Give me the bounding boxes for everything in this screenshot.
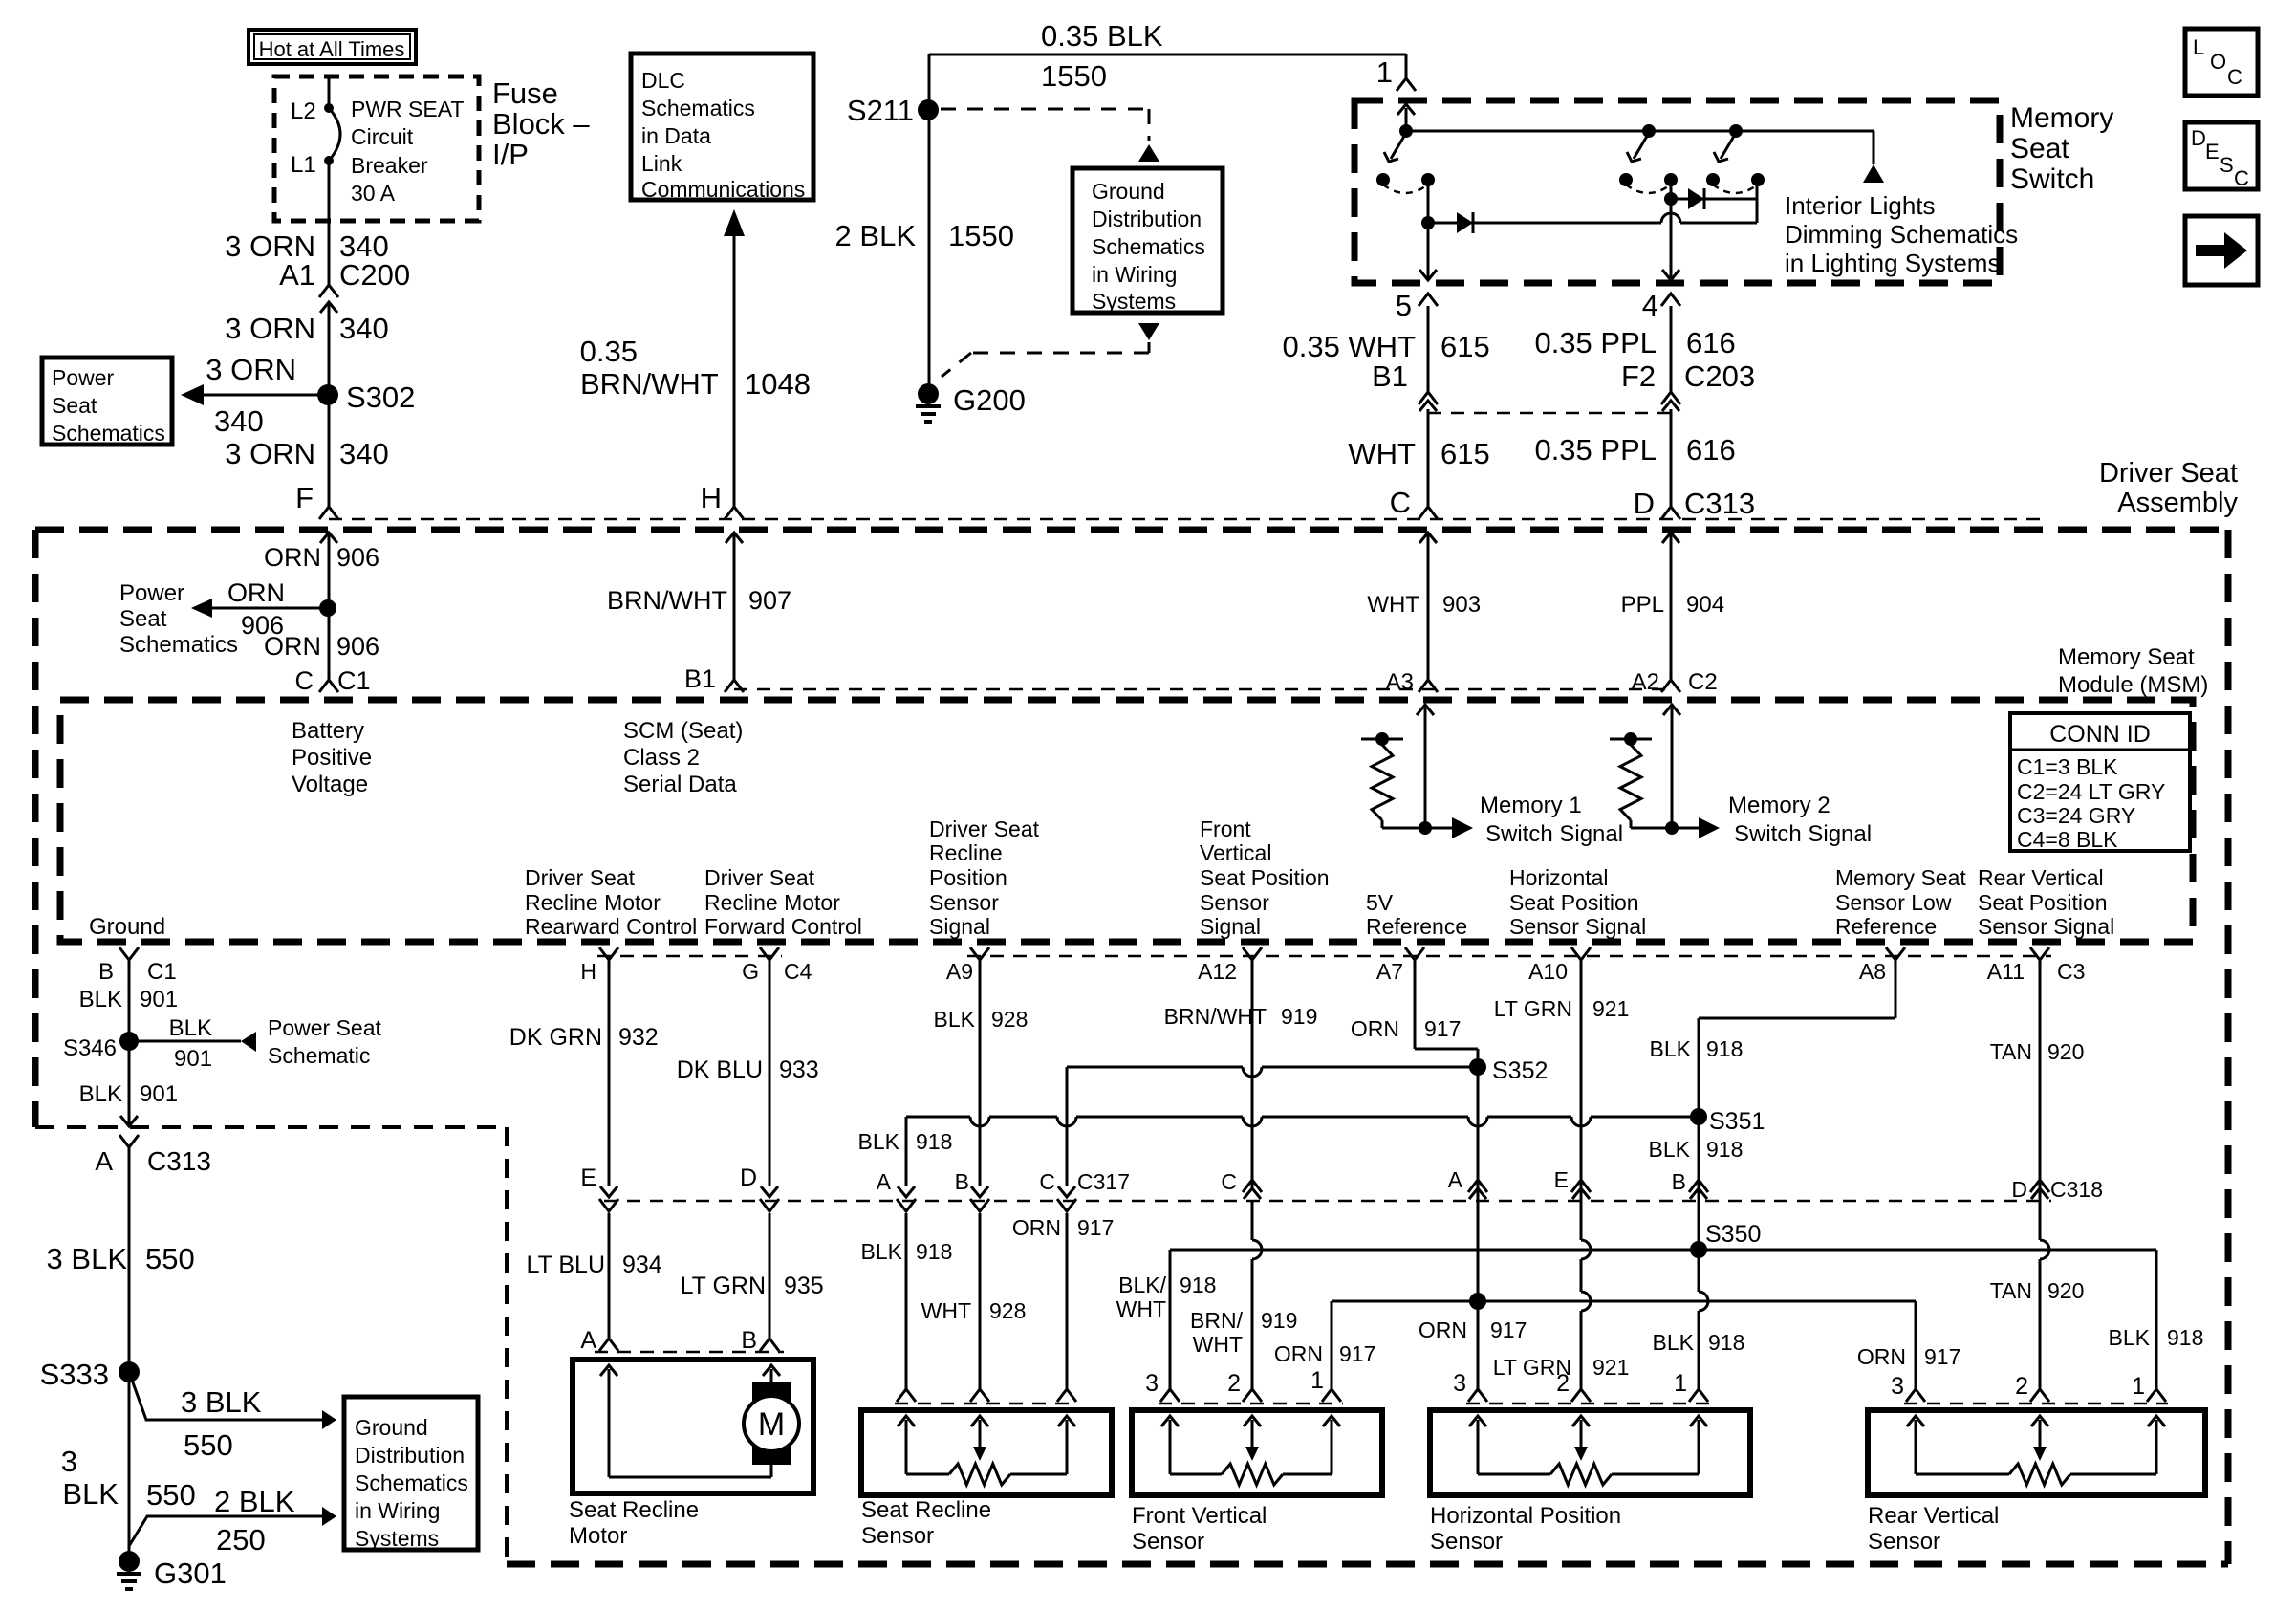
svg-text:Switch Signal: Switch Signal: [1734, 821, 1872, 847]
svg-text:Ground: Ground: [1092, 179, 1165, 204]
svg-text:Sensor: Sensor: [1200, 890, 1269, 915]
svg-text:3: 3: [1891, 1373, 1904, 1400]
svg-text:Front Vertical: Front Vertical: [1132, 1503, 1267, 1529]
svg-text:BLK: BLK: [934, 1007, 976, 1032]
svg-text:5V: 5V: [1366, 890, 1394, 915]
svg-text:Driver Seat: Driver Seat: [929, 816, 1040, 841]
svg-text:920: 920: [2047, 1039, 2084, 1064]
svg-text:917: 917: [1490, 1317, 1527, 1342]
svg-text:Positive: Positive: [292, 745, 372, 771]
svg-text:917: 917: [1077, 1215, 1114, 1240]
svg-text:Reference: Reference: [1366, 914, 1467, 939]
svg-text:G200: G200: [953, 383, 1026, 417]
svg-text:B: B: [98, 959, 114, 985]
svg-text:E: E: [2205, 140, 2220, 163]
svg-text:Sensor: Sensor: [1430, 1529, 1503, 1555]
svg-text:928: 928: [991, 1007, 1028, 1032]
svg-text:C3=24 GRY: C3=24 GRY: [2017, 803, 2135, 828]
svg-text:Position: Position: [929, 865, 1007, 890]
svg-text:928: 928: [989, 1298, 1026, 1323]
svg-text:3: 3: [1145, 1370, 1159, 1397]
svg-text:3 ORN: 3 ORN: [225, 312, 315, 345]
svg-text:ORN: ORN: [264, 632, 321, 661]
svg-text:in Data: in Data: [641, 123, 711, 148]
svg-text:921: 921: [1592, 1355, 1629, 1380]
svg-text:C3: C3: [2057, 959, 2085, 984]
svg-text:ORN: ORN: [1857, 1344, 1906, 1369]
svg-text:Schematics: Schematics: [119, 632, 238, 658]
svg-text:918: 918: [1180, 1273, 1216, 1297]
svg-text:3 BLK: 3 BLK: [47, 1242, 128, 1275]
svg-text:PPL: PPL: [1621, 592, 1664, 618]
svg-text:Power Seat: Power Seat: [268, 1015, 382, 1040]
svg-text:A: A: [877, 1169, 892, 1194]
svg-text:917: 917: [1924, 1344, 1960, 1369]
svg-text:935: 935: [784, 1273, 824, 1299]
svg-text:Seat Recline: Seat Recline: [861, 1497, 991, 1523]
svg-text:G: G: [742, 959, 759, 984]
svg-text:Schematics: Schematics: [1092, 234, 1205, 259]
svg-text:A: A: [580, 1327, 596, 1354]
svg-text:BRN/WHT: BRN/WHT: [1164, 1004, 1267, 1029]
svg-text:0.35 WHT: 0.35 WHT: [1282, 330, 1416, 363]
svg-text:BLK: BLK: [79, 1081, 122, 1107]
svg-text:B: B: [955, 1169, 969, 1194]
svg-text:1048: 1048: [745, 367, 811, 401]
svg-text:CONN ID: CONN ID: [2049, 721, 2151, 748]
svg-text:901: 901: [174, 1046, 212, 1072]
svg-text:S302: S302: [346, 381, 415, 414]
svg-text:Link: Link: [641, 151, 682, 176]
svg-text:DK GRN: DK GRN: [509, 1024, 602, 1051]
svg-text:C4: C4: [784, 959, 812, 984]
svg-text:I/P: I/P: [492, 138, 529, 171]
svg-text:906: 906: [336, 543, 379, 572]
svg-text:WHT: WHT: [1116, 1296, 1166, 1321]
svg-text:ORN: ORN: [227, 578, 285, 607]
svg-text:A3: A3: [1386, 669, 1414, 695]
svg-text:S333: S333: [40, 1358, 109, 1391]
svg-text:B1: B1: [684, 664, 716, 693]
svg-text:550: 550: [145, 1242, 195, 1275]
svg-text:C4=8 BLK: C4=8 BLK: [2017, 827, 2118, 852]
svg-text:932: 932: [618, 1024, 659, 1051]
svg-text:1: 1: [2132, 1373, 2145, 1400]
svg-text:340: 340: [339, 437, 389, 470]
svg-text:3: 3: [61, 1445, 77, 1478]
svg-text:Distribution: Distribution: [355, 1443, 465, 1468]
svg-text:L: L: [2193, 35, 2204, 59]
svg-text:Vertical: Vertical: [1200, 840, 1271, 865]
svg-text:WHT: WHT: [921, 1298, 971, 1323]
svg-text:C: C: [295, 666, 314, 695]
svg-text:BLK: BLK: [1650, 1036, 1692, 1061]
svg-text:S350: S350: [1705, 1221, 1761, 1248]
svg-text:S: S: [2220, 153, 2234, 177]
svg-text:918: 918: [916, 1239, 952, 1264]
svg-text:Communications: Communications: [641, 177, 805, 202]
svg-text:BLK: BLK: [62, 1477, 119, 1511]
svg-text:DK BLU: DK BLU: [677, 1056, 763, 1083]
svg-text:918: 918: [1706, 1137, 1743, 1162]
svg-text:C317: C317: [1077, 1169, 1130, 1194]
svg-text:3 BLK: 3 BLK: [181, 1385, 262, 1419]
svg-text:S211: S211: [847, 94, 914, 127]
svg-text:906: 906: [336, 632, 379, 661]
svg-text:L2: L2: [291, 98, 316, 124]
svg-text:B1: B1: [1372, 359, 1408, 393]
svg-text:Switch: Switch: [2010, 163, 2094, 195]
svg-text:Memory Seat: Memory Seat: [1835, 865, 1966, 890]
svg-text:LT GRN: LT GRN: [681, 1273, 766, 1299]
svg-text:917: 917: [1339, 1341, 1375, 1366]
svg-text:2 BLK: 2 BLK: [835, 219, 917, 252]
svg-text:C: C: [2234, 166, 2249, 190]
svg-text:Rear Vertical: Rear Vertical: [1978, 865, 2104, 890]
svg-text:S351: S351: [1709, 1108, 1765, 1135]
svg-text:Voltage: Voltage: [292, 772, 368, 797]
svg-text:Sensor: Sensor: [861, 1523, 934, 1549]
svg-text:919: 919: [1281, 1004, 1317, 1029]
svg-text:Recline Motor: Recline Motor: [704, 890, 840, 915]
svg-text:Schematics: Schematics: [52, 421, 165, 446]
svg-text:C: C: [1390, 486, 1411, 519]
svg-text:M: M: [758, 1406, 785, 1443]
svg-text:DLC: DLC: [641, 68, 685, 93]
svg-text:D: D: [2011, 1177, 2027, 1202]
svg-text:BLK: BLK: [861, 1239, 903, 1264]
svg-text:Schematics: Schematics: [355, 1470, 468, 1495]
svg-text:Sensor: Sensor: [1868, 1529, 1940, 1555]
svg-text:Signal: Signal: [1200, 914, 1261, 939]
svg-text:TAN: TAN: [1990, 1278, 2032, 1303]
svg-text:Horizontal: Horizontal: [1509, 865, 1609, 890]
svg-text:1: 1: [1310, 1367, 1324, 1394]
svg-text:5: 5: [1396, 289, 1412, 322]
svg-text:550: 550: [184, 1428, 233, 1462]
svg-text:TAN: TAN: [1990, 1039, 2032, 1064]
svg-text:C318: C318: [2050, 1177, 2103, 1202]
svg-text:Front: Front: [1200, 816, 1251, 841]
svg-text:1: 1: [1674, 1370, 1687, 1397]
svg-text:Driver Seat: Driver Seat: [704, 865, 815, 890]
svg-text:Distribution: Distribution: [1092, 207, 1202, 231]
svg-text:BRN/WHT: BRN/WHT: [607, 586, 727, 615]
svg-text:Dimming Schematics: Dimming Schematics: [1785, 220, 2018, 249]
svg-text:918: 918: [1708, 1330, 1744, 1355]
svg-text:901: 901: [140, 987, 178, 1012]
svg-text:Seat Position: Seat Position: [1200, 865, 1330, 890]
svg-text:Systems: Systems: [355, 1526, 439, 1551]
svg-text:Block –: Block –: [492, 107, 590, 141]
svg-text:LT BLU: LT BLU: [527, 1252, 605, 1278]
svg-text:F: F: [295, 481, 314, 514]
svg-text:3 ORN: 3 ORN: [225, 437, 315, 470]
svg-text:615: 615: [1440, 437, 1490, 470]
svg-text:C203: C203: [1684, 359, 1755, 393]
svg-text:616: 616: [1686, 433, 1736, 467]
svg-text:340: 340: [339, 312, 389, 345]
svg-text:Power: Power: [119, 580, 184, 606]
svg-text:250: 250: [216, 1523, 266, 1557]
svg-text:C1: C1: [147, 959, 177, 985]
svg-text:920: 920: [2047, 1278, 2084, 1303]
svg-text:Signal: Signal: [929, 914, 990, 939]
svg-text:Seat Position: Seat Position: [1509, 890, 1639, 915]
svg-text:3: 3: [1453, 1370, 1466, 1397]
svg-text:S346: S346: [63, 1035, 117, 1061]
svg-text:WHT: WHT: [1348, 437, 1416, 470]
svg-text:550: 550: [146, 1478, 196, 1512]
svg-text:Seat Recline: Seat Recline: [569, 1497, 699, 1523]
svg-text:2: 2: [1227, 1370, 1241, 1397]
svg-text:E: E: [1554, 1167, 1569, 1192]
svg-text:Forward Control: Forward Control: [704, 914, 862, 939]
svg-text:C313: C313: [147, 1146, 211, 1176]
svg-text:Power: Power: [52, 365, 115, 390]
svg-text:Sensor Low: Sensor Low: [1835, 890, 1952, 915]
svg-text:Memory Seat: Memory Seat: [2058, 644, 2195, 670]
svg-text:A2: A2: [1632, 669, 1659, 695]
svg-text:Horizontal Position: Horizontal Position: [1430, 1503, 1621, 1529]
svg-text:1550: 1550: [1041, 59, 1107, 93]
svg-text:Sensor: Sensor: [929, 890, 999, 915]
svg-text:A11: A11: [1987, 959, 2025, 984]
svg-text:Ground: Ground: [355, 1415, 428, 1440]
svg-text:Seat Position: Seat Position: [1978, 890, 2108, 915]
svg-text:1550: 1550: [948, 219, 1014, 252]
svg-text:L1: L1: [291, 152, 316, 178]
svg-text:in Wiring: in Wiring: [1092, 262, 1177, 287]
svg-text:WHT: WHT: [1367, 592, 1419, 618]
svg-text:3 ORN: 3 ORN: [206, 353, 296, 386]
svg-text:SCM (Seat): SCM (Seat): [623, 718, 743, 744]
svg-text:901: 901: [140, 1081, 178, 1107]
svg-text:G301: G301: [154, 1557, 227, 1590]
svg-text:Schematic: Schematic: [268, 1043, 370, 1068]
svg-text:Serial Data: Serial Data: [623, 772, 737, 797]
svg-text:PWR SEAT: PWR SEAT: [351, 97, 464, 121]
svg-text:2: 2: [2015, 1373, 2028, 1400]
svg-text:H: H: [580, 959, 596, 984]
svg-text:D: D: [1634, 487, 1655, 520]
svg-text:Rear Vertical: Rear Vertical: [1868, 1503, 1999, 1529]
svg-text:BLK: BLK: [1653, 1330, 1695, 1355]
svg-text:ORN: ORN: [1274, 1341, 1323, 1366]
svg-text:C: C: [1039, 1169, 1055, 1194]
svg-text:933: 933: [779, 1056, 819, 1083]
svg-text:ORN: ORN: [1419, 1317, 1467, 1342]
svg-text:Systems: Systems: [1092, 289, 1176, 314]
svg-text:ORN: ORN: [1351, 1016, 1399, 1041]
svg-text:918: 918: [1706, 1036, 1743, 1061]
svg-text:BRN/WHT: BRN/WHT: [580, 367, 719, 401]
svg-text:Breaker: Breaker: [351, 153, 428, 178]
svg-text:Motor: Motor: [569, 1523, 627, 1549]
svg-text:LT GRN: LT GRN: [1494, 996, 1572, 1021]
svg-text:903: 903: [1442, 592, 1481, 618]
svg-text:2: 2: [1556, 1370, 1570, 1397]
svg-text:BLK: BLK: [2109, 1325, 2151, 1350]
svg-text:Seat: Seat: [52, 393, 97, 418]
svg-text:A9: A9: [946, 959, 973, 984]
svg-text:Assembly: Assembly: [2117, 488, 2238, 518]
svg-text:Interior Lights: Interior Lights: [1785, 191, 1936, 220]
svg-text:Seat: Seat: [119, 606, 167, 632]
svg-text:615: 615: [1440, 330, 1490, 363]
svg-text:F2: F2: [1621, 359, 1656, 393]
svg-text:918: 918: [916, 1129, 952, 1154]
svg-text:Sensor Signal: Sensor Signal: [1978, 914, 2114, 939]
svg-text:1: 1: [1376, 55, 1393, 89]
svg-text:919: 919: [1261, 1308, 1297, 1333]
svg-text:O: O: [2210, 50, 2226, 74]
svg-text:Module (MSM): Module (MSM): [2058, 672, 2208, 698]
svg-text:Circuit: Circuit: [351, 124, 414, 149]
svg-text:E: E: [580, 1165, 596, 1191]
svg-text:Recline Motor: Recline Motor: [525, 890, 661, 915]
svg-text:B: B: [741, 1327, 757, 1354]
svg-text:0.35 PPL: 0.35 PPL: [1534, 326, 1657, 359]
svg-text:BLK: BLK: [79, 987, 122, 1012]
svg-text:Class 2: Class 2: [623, 745, 700, 771]
svg-text:Seat: Seat: [2010, 133, 2069, 164]
svg-text:A7: A7: [1376, 959, 1403, 984]
svg-text:Hot at All Times: Hot at All Times: [259, 37, 405, 61]
svg-text:Memory 1: Memory 1: [1480, 793, 1582, 818]
svg-text:Memory 2: Memory 2: [1728, 793, 1830, 818]
svg-text:BLK/: BLK/: [1118, 1273, 1166, 1297]
svg-text:Driver Seat: Driver Seat: [525, 865, 636, 890]
svg-text:Fuse: Fuse: [492, 76, 558, 110]
svg-text:B: B: [1672, 1169, 1686, 1194]
svg-text:340: 340: [214, 404, 264, 438]
svg-text:Ground: Ground: [89, 914, 165, 940]
svg-text:30 A: 30 A: [351, 181, 396, 206]
svg-text:Sensor Signal: Sensor Signal: [1509, 914, 1646, 939]
svg-text:Recline: Recline: [929, 840, 1003, 865]
svg-text:904: 904: [1686, 592, 1724, 618]
svg-text:C1: C1: [337, 666, 371, 695]
svg-text:Battery: Battery: [292, 718, 364, 744]
svg-text:BRN/: BRN/: [1190, 1308, 1244, 1333]
svg-text:A1: A1: [279, 258, 315, 292]
svg-text:BLK: BLK: [169, 1015, 212, 1041]
svg-text:0.35 PPL: 0.35 PPL: [1534, 433, 1657, 467]
svg-text:0.35 BLK: 0.35 BLK: [1041, 19, 1163, 53]
svg-text:D: D: [740, 1165, 757, 1191]
svg-text:Schematics: Schematics: [641, 96, 755, 120]
svg-text:D: D: [2191, 126, 2206, 150]
svg-text:616: 616: [1686, 326, 1736, 359]
svg-text:Switch Signal: Switch Signal: [1485, 821, 1623, 847]
svg-text:in Lighting Systems: in Lighting Systems: [1785, 249, 2000, 277]
svg-text:A12: A12: [1198, 959, 1237, 984]
svg-text:Rearward Control: Rearward Control: [525, 914, 697, 939]
svg-text:Reference: Reference: [1835, 914, 1937, 939]
svg-text:907: 907: [748, 586, 791, 615]
svg-text:C: C: [2227, 65, 2242, 89]
svg-text:H: H: [701, 481, 722, 514]
svg-text:C1=3 BLK: C1=3 BLK: [2017, 754, 2118, 779]
svg-text:ORN: ORN: [264, 543, 321, 572]
svg-text:C313: C313: [1684, 487, 1755, 520]
svg-text:Driver Seat: Driver Seat: [2099, 458, 2238, 489]
svg-text:ORN: ORN: [1012, 1215, 1061, 1240]
svg-text:C2: C2: [1688, 669, 1718, 695]
svg-text:in Wiring: in Wiring: [355, 1498, 440, 1523]
svg-text:0.35: 0.35: [580, 335, 638, 368]
svg-text:C200: C200: [339, 258, 410, 292]
svg-text:C: C: [1221, 1169, 1237, 1194]
svg-text:A: A: [1448, 1167, 1463, 1192]
svg-text:2 BLK: 2 BLK: [214, 1485, 295, 1518]
svg-text:Sensor: Sensor: [1132, 1529, 1204, 1555]
svg-text:Memory: Memory: [2010, 102, 2113, 134]
svg-text:A10: A10: [1528, 959, 1568, 984]
svg-text:917: 917: [1424, 1016, 1461, 1041]
svg-text:BLK: BLK: [858, 1129, 900, 1154]
svg-text:4: 4: [1642, 289, 1658, 322]
svg-text:BLK: BLK: [1649, 1137, 1691, 1162]
svg-text:A8: A8: [1859, 959, 1886, 984]
svg-text:A: A: [95, 1146, 113, 1176]
svg-text:WHT: WHT: [1193, 1332, 1243, 1357]
svg-text:921: 921: [1592, 996, 1629, 1021]
svg-text:C2=24 LT GRY: C2=24 LT GRY: [2017, 779, 2165, 804]
svg-text:934: 934: [622, 1252, 662, 1278]
svg-text:S352: S352: [1492, 1057, 1548, 1084]
svg-text:918: 918: [2167, 1325, 2203, 1350]
